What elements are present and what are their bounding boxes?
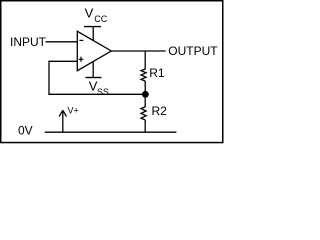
border frame <box>1 1 223 143</box>
VSS label <box>89 79 109 97</box>
V+ supply arrow <box>59 110 66 132</box>
VCC label <box>85 5 108 24</box>
wire junction to R2 <box>144 97 146 108</box>
svg-text:CC: CC <box>94 14 107 24</box>
VSS supply bar <box>86 77 102 79</box>
op-amp non-inverting input plus sign <box>79 57 84 62</box>
wire output branch down to R1 <box>144 51 146 70</box>
svg-text:V: V <box>85 5 94 20</box>
VCC supply bar <box>84 26 101 28</box>
wire R2 to 0V rail <box>144 120 146 132</box>
junction node dot <box>142 91 149 98</box>
svg-text:INPUT: INPUT <box>10 35 47 49</box>
power pin wire to VSS <box>92 61 94 77</box>
power pin wire to VCC <box>92 27 94 41</box>
svg-text:V+: V+ <box>68 106 79 116</box>
wire op-amp output to OUTPUT <box>111 50 165 52</box>
op-amp U1 <box>77 31 111 70</box>
svg-text:OUTPUT: OUTPUT <box>168 44 218 58</box>
svg-text:SS: SS <box>97 87 109 97</box>
wire INPUT to op-amp inverting input <box>46 41 79 43</box>
wire feedback from junction to non-inverting input <box>49 61 143 94</box>
op-amp inverting input minus sign <box>79 39 83 41</box>
resistor R1 <box>141 69 146 81</box>
0V rail <box>45 131 177 133</box>
wire R1 to junction <box>144 81 146 92</box>
resistor R2 <box>141 107 146 120</box>
svg-text:R1: R1 <box>149 66 165 80</box>
svg-text:0V: 0V <box>18 124 33 138</box>
svg-text:R2: R2 <box>152 104 168 118</box>
